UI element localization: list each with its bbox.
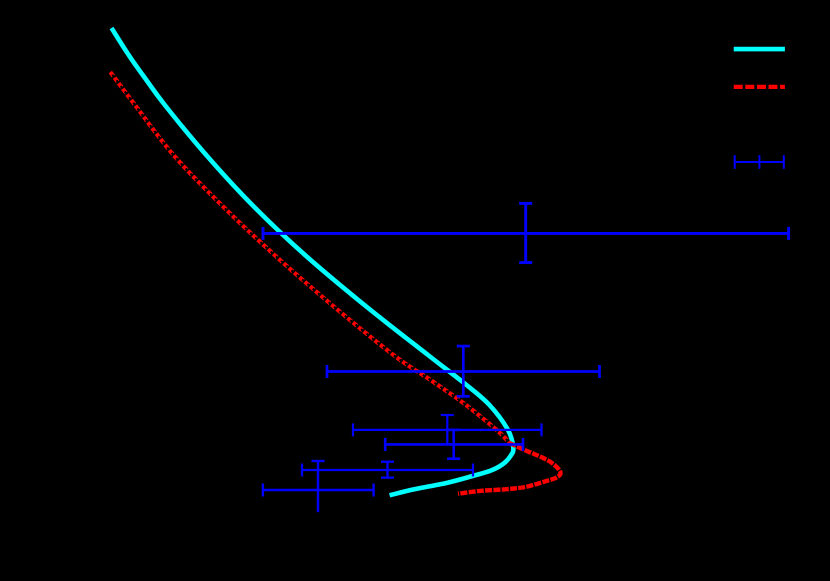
red curve dash notches (hollow dash texture, upper branch): [110, 72, 509, 443]
red dashed model curve (turn and lower branch): [458, 443, 561, 494]
curve: cyan solid model curve: [112, 28, 514, 495]
legend: cyan solid line sample: [734, 47, 785, 52]
error bar 3: [353, 415, 542, 444]
error bar 4: [385, 430, 523, 459]
error bar 1 (top, widest): [263, 203, 789, 262]
legend: red dashed line sample: [734, 85, 785, 89]
curve: red dashed model curve (upper branch): [110, 72, 509, 443]
error bar 2: [327, 346, 600, 396]
legend: blue error bar sample: [735, 155, 784, 169]
error bar 6 (bottom left, no lower cap): [263, 461, 374, 512]
error bar 5: [302, 462, 473, 478]
